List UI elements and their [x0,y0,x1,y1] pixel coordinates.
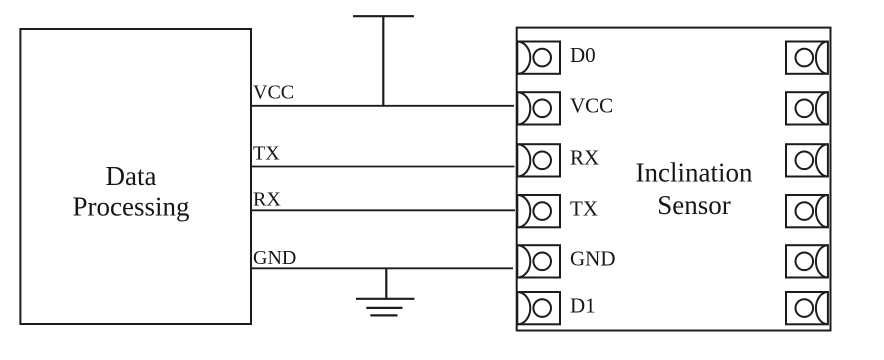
pin label GND [570,246,616,270]
svg-text:VCC: VCC [253,82,294,104]
svg-text:RX: RX [570,146,599,170]
pin label D0 [570,43,596,67]
label: Data Processing [73,161,190,222]
net label RX [253,189,281,211]
svg-text:TX: TX [570,196,598,220]
svg-text:RX: RX [253,189,281,211]
wire TX (Data Processing TX to sensor RX pin) [251,166,515,168]
svg-text:Inclination: Inclination [636,157,753,187]
pin GND (sensor left, row 5) [517,245,560,277]
pad right row 4 (unlabeled) [786,195,828,227]
pin TX (sensor left, row 4) [517,195,560,227]
pin D0 (sensor left, row 1) [517,42,560,74]
pin VCC (sensor left, row 2) [517,92,560,124]
pin D1 (sensor left, row 6) [517,292,560,324]
pad right row 2 (unlabeled) [786,92,828,124]
inclination sensor block [517,28,831,331]
svg-text:Data: Data [106,161,157,191]
svg-text:Sensor: Sensor [657,190,731,220]
wire GND (Data Processing to sensor GND pin) [251,267,513,269]
wire VCC (Data Processing to sensor VCC pin) [251,105,514,107]
pad right row 6 (unlabeled) [786,292,828,324]
svg-text:GND: GND [253,247,296,269]
svg-text:D0: D0 [570,43,596,67]
pin label D1 [570,293,596,317]
pad right row 3 (unlabeled) [786,144,828,176]
net label GND [253,247,296,269]
power supply symbol on VCC wire [353,16,414,106]
svg-text:D1: D1 [570,293,596,317]
pad right row 5 (unlabeled) [786,245,828,277]
pad right row 1 (unlabeled) [786,42,828,74]
label: Inclination Sensor [636,157,753,220]
svg-text:Processing: Processing [73,192,190,222]
net label VCC [253,82,294,104]
pin label VCC [570,94,613,118]
svg-text:GND: GND [570,246,616,270]
pin label TX [570,196,598,220]
net label TX [253,142,280,164]
wire RX (Data Processing RX to sensor TX pin) [251,209,515,211]
pin RX (sensor left, row 3) [517,144,560,176]
ground symbol on GND wire [356,268,415,315]
data processing block [20,29,251,324]
pin label RX [570,146,599,170]
svg-text:VCC: VCC [570,94,613,118]
svg-text:TX: TX [253,142,280,164]
